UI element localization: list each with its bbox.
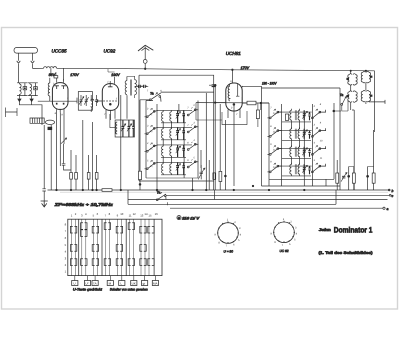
matrix compartment walls <box>79 219 154 275</box>
svg-text:190V: 190V <box>111 73 120 77</box>
svg-text:Ta: Ta <box>340 93 344 97</box>
box around UCH81 triode <box>222 111 247 125</box>
telescopic antenna arrow <box>138 45 153 51</box>
right IF stack box <box>269 103 334 179</box>
svg-text:Ta: Ta <box>150 91 154 95</box>
svg-text:170V: 170V <box>241 66 250 70</box>
wire cathode row <box>32 101 77 125</box>
right stack row3 <box>268 145 326 158</box>
dial UCC85 socket <box>218 223 239 244</box>
wire mixer box left <box>139 75 214 181</box>
svg-text:gr: gr <box>143 281 146 285</box>
bus C <box>128 199 388 201</box>
matrix row numbers <box>65 222 67 273</box>
svg-text:190 - 190V: 190 - 190V <box>262 81 277 85</box>
screen resistor <box>256 110 259 119</box>
button boxes <box>72 281 159 286</box>
right stack row4 <box>268 163 326 176</box>
matrix top labels <box>71 212 158 217</box>
trimmer mid <box>61 138 67 144</box>
output transformer C <box>348 91 352 102</box>
svg-text:170V: 170V <box>70 73 79 77</box>
tuned circuit L2 C1 <box>17 83 27 96</box>
verticals center <box>201 93 225 190</box>
left IF stack box <box>146 101 198 179</box>
tube UC92 <box>102 84 118 111</box>
svg-text:86V: 86V <box>49 73 56 77</box>
bus B <box>166 194 389 196</box>
tick line D start <box>167 202 169 205</box>
left stack rails <box>157 104 184 178</box>
svg-text:U₂: U₂ <box>150 130 153 133</box>
grid line junctions <box>215 85 226 190</box>
svg-text:TA: TA <box>93 281 97 285</box>
caps pair <box>137 85 142 88</box>
svg-text:UCC85: UCC85 <box>52 48 68 53</box>
right verticals <box>337 130 373 190</box>
terminal a <box>383 207 385 209</box>
wire antenna to coil <box>33 67 44 69</box>
junction dots bus A <box>56 189 58 191</box>
svg-text:U²: U² <box>85 281 88 285</box>
coil L5 <box>91 99 94 101</box>
tube UCC85 <box>52 83 68 110</box>
wire left edge stub <box>6 108 18 118</box>
right stack outer box <box>262 86 341 190</box>
verticals below UC92 <box>121 95 140 190</box>
svg-text:U-Taste gedrückt: U-Taste gedrückt <box>73 287 103 291</box>
svg-text:11: 11 <box>129 213 132 217</box>
resistor in bus A <box>102 189 112 192</box>
left stack row1 <box>145 107 199 122</box>
output transformer D <box>361 91 365 102</box>
svg-text:U: U <box>73 281 75 285</box>
junction right <box>260 102 262 104</box>
svg-text:UK: UK <box>132 281 136 285</box>
svg-text:a: a <box>387 207 389 211</box>
vertical bus link <box>128 190 336 204</box>
wire Ta1 to box <box>161 91 214 93</box>
bus D <box>128 203 336 205</box>
svg-text:Ta: Ta <box>157 191 161 195</box>
wire right output <box>371 100 385 104</box>
oscillator coil L4 <box>48 83 50 96</box>
svg-text:MA: MA <box>153 281 158 285</box>
cap right <box>95 95 98 106</box>
svg-text:110 Ω/ V: 110 Ω/ V <box>182 216 200 220</box>
output transformer B <box>361 72 365 83</box>
bus terminals right <box>388 189 390 191</box>
resistor pair bottom center <box>213 173 216 180</box>
tube pins to bus <box>57 112 65 190</box>
ground cap <box>42 189 46 201</box>
oval component <box>45 120 54 124</box>
wire grid UCH81 <box>196 102 247 104</box>
svg-text:Dominator 1: Dominator 1 <box>334 226 373 235</box>
junction dots center bus <box>206 189 208 191</box>
small cap <box>48 127 52 130</box>
svg-text:Jahn: Jahn <box>319 228 332 232</box>
svg-text:U₃: U₃ <box>150 148 153 151</box>
svg-text:UCH81: UCH81 <box>226 51 242 56</box>
svg-text:ZF=468kHz + 10,7MHz: ZF=468kHz + 10,7MHz <box>53 202 114 207</box>
svg-text:13: 13 <box>140 213 144 217</box>
svg-text:(1. Teil des Schaltbildes): (1. Teil des Schaltbildes) <box>319 251 374 255</box>
wire resistor link <box>242 102 269 104</box>
ground <box>41 201 48 207</box>
transformer T1 <box>125 81 127 95</box>
svg-text:U₁: U₁ <box>150 113 153 116</box>
svg-text:10: 10 <box>120 212 124 216</box>
right stack row2 <box>268 127 326 140</box>
svg-text:U = 80: U = 80 <box>224 250 234 254</box>
bus A shadow <box>60 191 388 193</box>
verticals left-mid <box>44 120 96 190</box>
wire top bus <box>57 68 375 71</box>
output transformer A <box>348 74 352 85</box>
svg-text:16: 16 <box>155 212 159 216</box>
left stack row4 <box>145 159 199 174</box>
svg-text:Schalter von unten gesehen: Schalter von unten gesehen <box>110 287 148 291</box>
svg-text:UC 92: UC 92 <box>280 249 289 253</box>
switch matrix outer box <box>68 219 162 275</box>
resistors row <box>70 173 73 180</box>
right stack row1 <box>268 109 326 122</box>
right stack rails <box>282 104 313 179</box>
cathode cap <box>62 144 71 170</box>
bus A <box>48 189 391 191</box>
cap on mixer box edge <box>212 85 216 87</box>
left stack row3 <box>145 142 199 157</box>
button stems <box>75 276 156 281</box>
matrix column rails <box>72 219 149 275</box>
anode resistor R <box>247 101 256 105</box>
grid capacitor <box>54 76 58 78</box>
bus E <box>170 207 383 209</box>
tube UCH81 <box>226 83 242 111</box>
svg-text:15: 15 <box>148 213 152 217</box>
circled Gl 110 <box>177 216 181 220</box>
trimmer box below UC92 <box>115 120 134 137</box>
left stack row2 <box>145 124 199 139</box>
coil L1 input <box>44 67 57 69</box>
transformer wires <box>351 71 375 132</box>
trimmer bottom center <box>198 168 205 179</box>
grid stub left <box>97 99 102 103</box>
svg-text:b: b <box>392 189 394 193</box>
svg-text:12: 12 <box>133 212 137 216</box>
svg-text:c: c <box>392 194 394 198</box>
wire mixer box top <box>139 75 214 190</box>
wire 190V drop <box>114 77 116 84</box>
svg-text:U₄: U₄ <box>150 165 153 168</box>
wire anode UCH81 to right stack <box>242 85 262 87</box>
antenna <box>14 48 38 54</box>
resistor bank right <box>336 173 339 183</box>
left cluster coil <box>30 118 44 123</box>
tuned circuit L3 C2 <box>28 83 38 96</box>
resistor row1 right stack <box>285 114 288 120</box>
matrix contacts <box>70 223 154 266</box>
trimmer bank right of UCC85 <box>78 92 92 111</box>
dial UC92 socket <box>274 222 295 243</box>
button labels <box>73 281 157 285</box>
svg-text:UC92: UC92 <box>104 48 116 53</box>
